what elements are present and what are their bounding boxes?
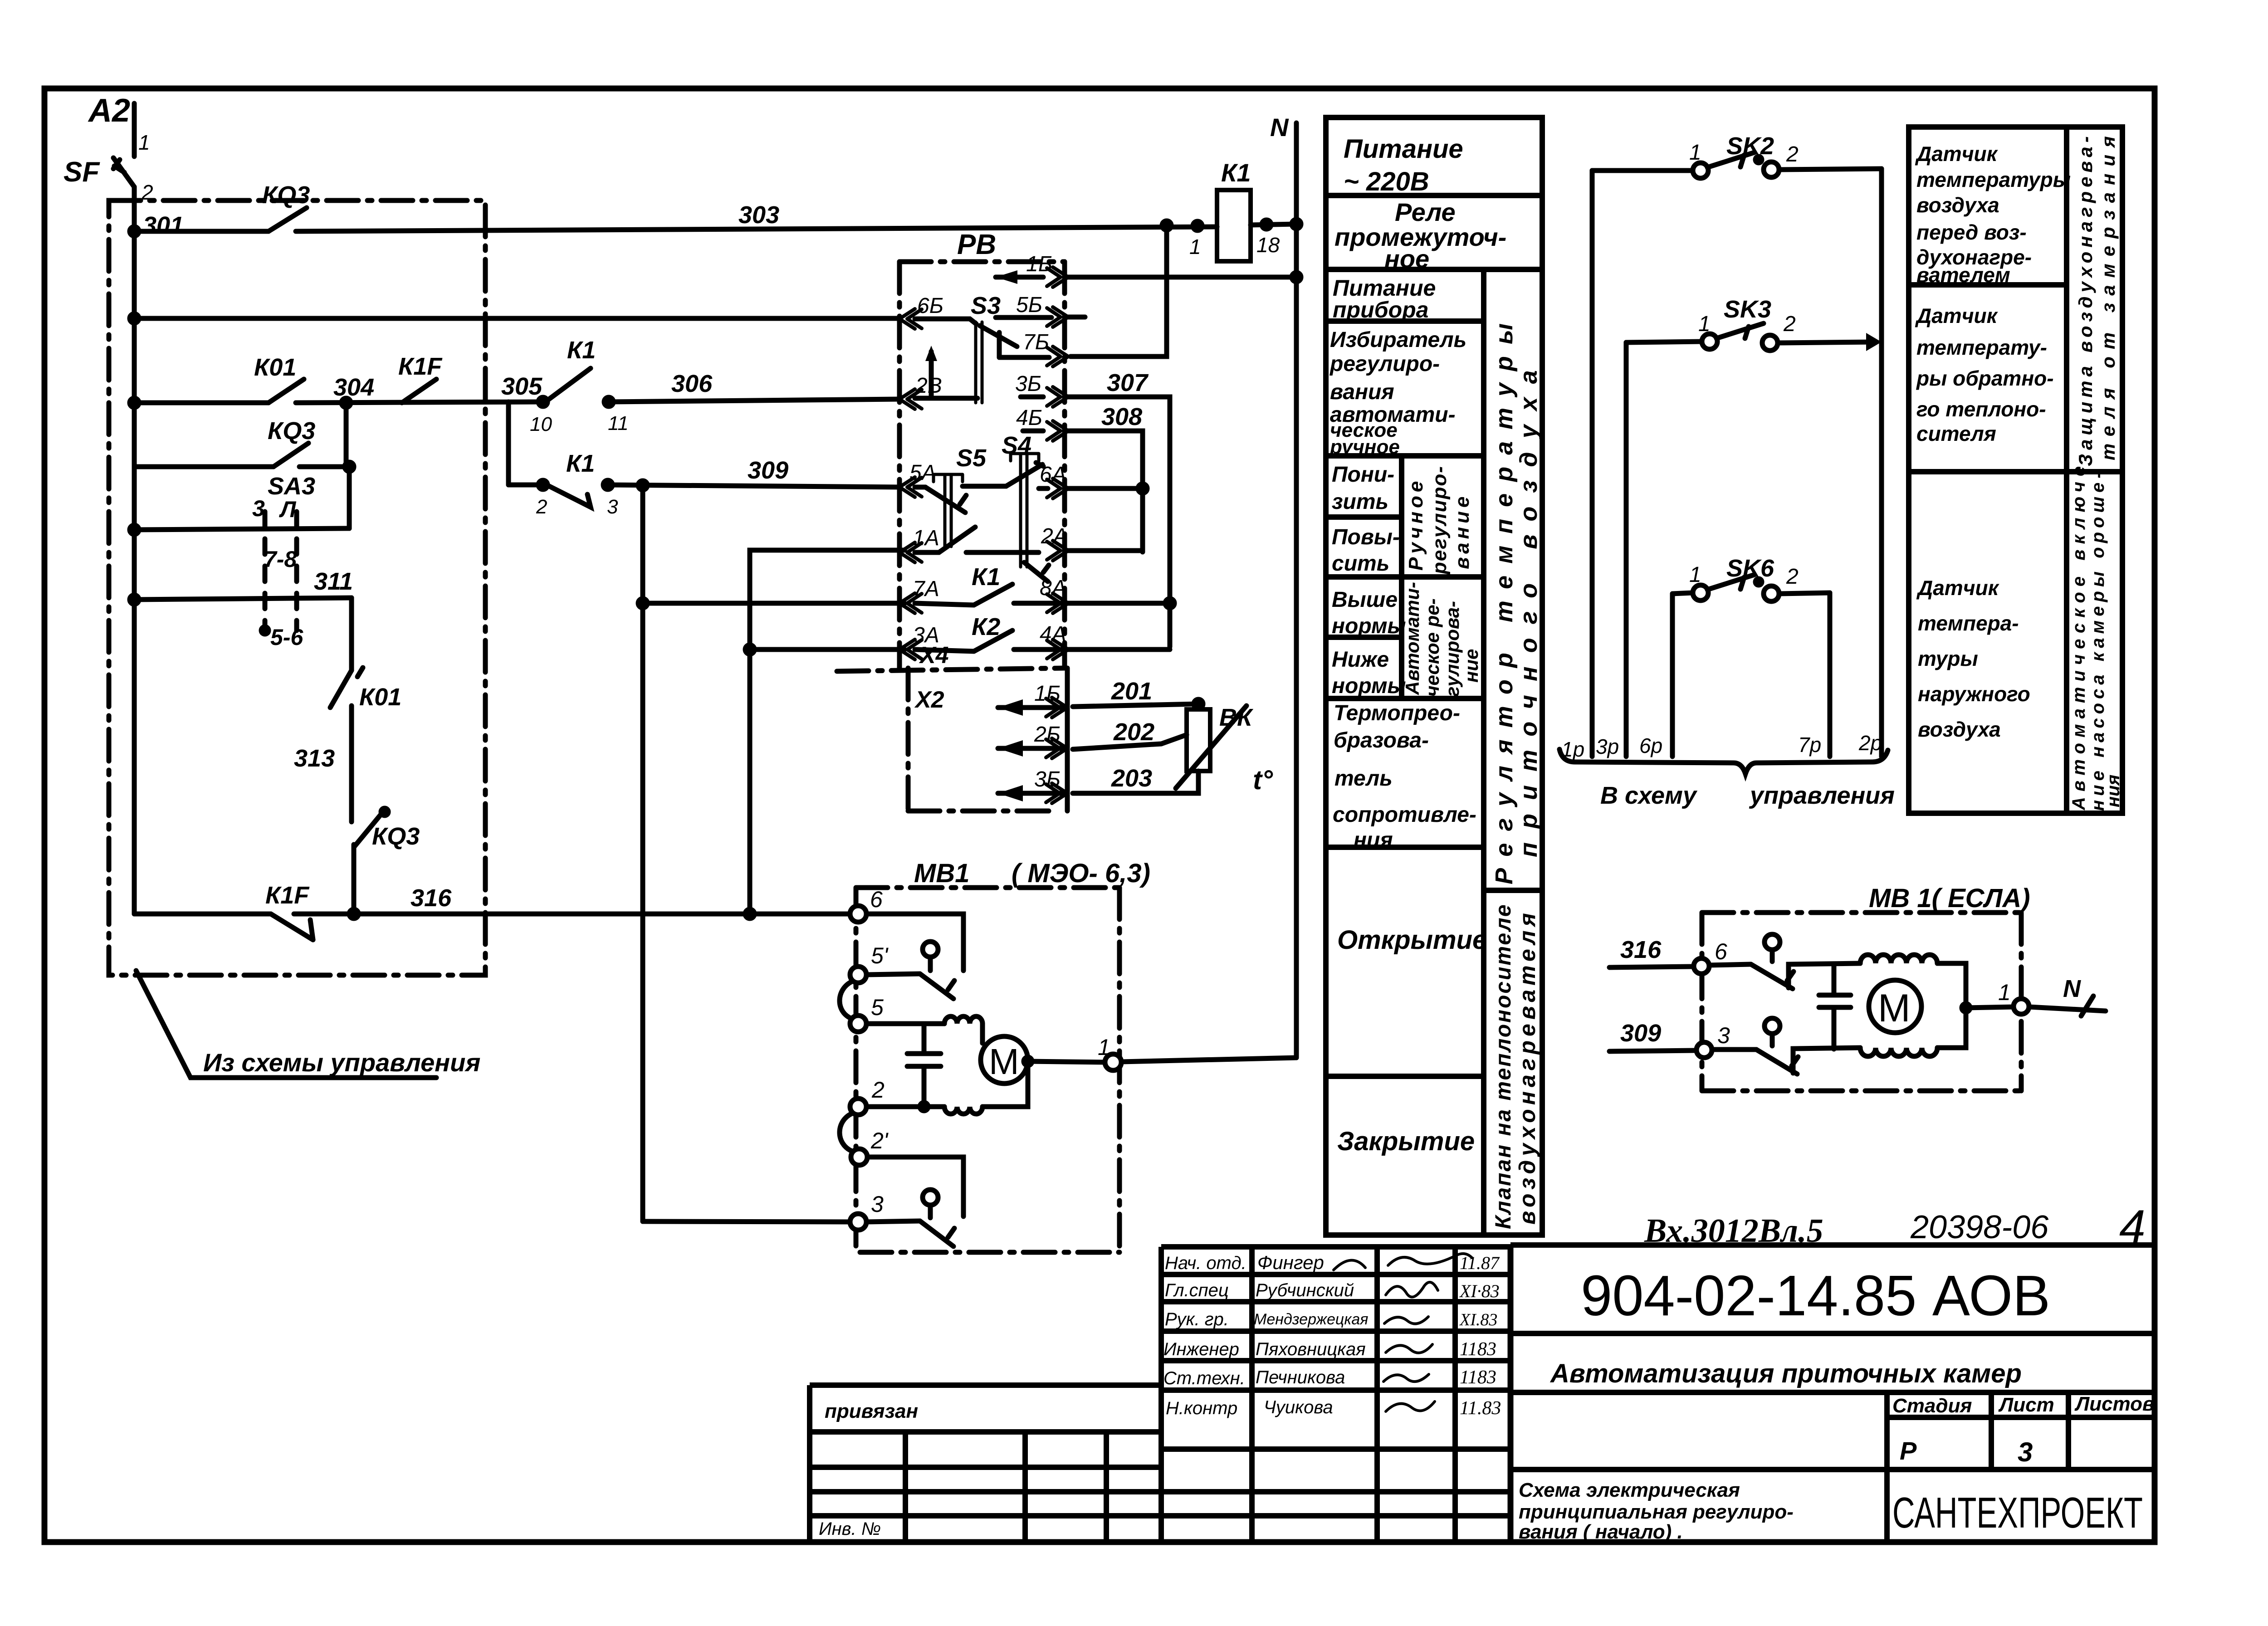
wire SK2 left (1592, 168, 1693, 173)
terminal 4A arrow (1047, 640, 1068, 659)
svg-text:А2: А2 (88, 93, 130, 129)
svg-text:Автоматизация приточных каме: Автоматизация приточных камер (1549, 1359, 2022, 1388)
svg-text:SА3: SА3 (268, 473, 315, 500)
contact K1 7A-8A (974, 584, 1012, 605)
svg-text:К1: К1 (972, 563, 1000, 591)
svg-text:N: N (2063, 975, 2081, 1002)
wire 311 (134, 598, 352, 600)
contact K01 (269, 379, 304, 403)
contact KQ3 (row 301/303) (269, 208, 307, 231)
svg-text:2А: 2А (1041, 524, 1068, 548)
svg-text:Листов: Листов (2074, 1393, 2155, 1415)
svg-text:~ 220В: ~ 220В (1344, 167, 1429, 196)
thermostat SK2 (1693, 163, 1708, 178)
motor M circle (981, 1036, 1028, 1084)
svg-text:К01: К01 (359, 684, 401, 711)
svg-text:2: 2 (871, 1077, 885, 1103)
svg-text:ВК: ВК (1219, 704, 1254, 731)
dash-dot enclosure left box (109, 200, 485, 975)
terminal 5B arrow (1047, 307, 1068, 327)
svg-text:сить: сить (1332, 552, 1389, 576)
wire 1B to N (1068, 275, 1296, 280)
svg-text:КQ3: КQ3 (262, 181, 310, 209)
svg-text:3р: 3р (1596, 735, 1619, 758)
thermostat SK3 (1702, 334, 1717, 349)
svg-text:Реле: Реле (1395, 198, 1456, 226)
svg-text:2: 2 (1786, 142, 1799, 166)
svg-text:6Б: 6Б (917, 294, 943, 318)
svg-text:ние: ние (1461, 649, 1482, 683)
terminal 6B arrow (899, 309, 922, 329)
circuit breaker SF (113, 158, 134, 187)
svg-text:2': 2' (870, 1128, 889, 1153)
terminal labels p (1561, 731, 1882, 761)
wire 201 (1073, 704, 1198, 707)
limit switch circle lower (ESLA) (1765, 1018, 1780, 1034)
leader Iz skhemy upravleniya (136, 971, 436, 1078)
PLACE_PB (643, 859, 1296, 1252)
winding upper (944, 1016, 982, 1024)
svg-text:МВ 1( ЕСЛА): МВ 1( ЕСЛА) (1869, 884, 2030, 913)
svg-text:309: 309 (1620, 1020, 1661, 1047)
terminal 2B(X2) (998, 746, 1067, 751)
label V skhemu upravleniya (1600, 782, 1895, 809)
svg-text:4Б: 4Б (1016, 406, 1042, 430)
svg-text:307: 307 (1107, 369, 1149, 396)
svg-text:регулиро-: регулиро- (1428, 465, 1451, 575)
svg-text:Вх.3012Вл.5: Вх.3012Вл.5 (1644, 1212, 1823, 1250)
svg-text:313: 313 (294, 745, 335, 772)
svg-text:теля от замерзания: теля от замерзания (2097, 129, 2119, 460)
svg-text:SF: SF (64, 156, 100, 188)
svg-text:Автоматическое включе-: Автоматическое включе- (2069, 449, 2089, 811)
svg-text:Ниже: Ниже (1332, 648, 1389, 672)
svg-text:1183: 1183 (1460, 1367, 1496, 1388)
svg-text:t°: t° (1253, 765, 1273, 795)
svg-text:Датчик: Датчик (1915, 142, 1999, 166)
wire 316 stub (1609, 967, 1693, 967)
wire 303 (296, 227, 1217, 231)
wire N stub (ESLA) (2029, 1007, 2106, 1011)
wire 6A row (1068, 486, 1143, 491)
wire 304 drop (344, 403, 349, 467)
svg-text:зить: зить (1332, 490, 1388, 514)
actuator arrow up (929, 352, 934, 398)
S4 lower blade (1024, 562, 1049, 581)
svg-text:1: 1 (138, 131, 150, 154)
svg-text:904-02-14.85 АОВ: 904-02-14.85 АОВ (1581, 1264, 2050, 1328)
terminal 5A arrow (899, 477, 922, 497)
wire 5 branch (866, 1021, 944, 1026)
svg-text:ручное: ручное (1330, 436, 1400, 458)
svg-text:Рубчинский: Рубчинский (1256, 1280, 1354, 1300)
wire drop 6p (1670, 594, 1675, 757)
wire 203 (1073, 771, 1198, 793)
capacitor (ESLA) (1819, 964, 1851, 1049)
terminal 5 (850, 1016, 866, 1032)
svg-text:ние насоса камеры ороше-: ние насоса камеры ороше- (2088, 468, 2108, 811)
wire row 6B (134, 316, 899, 321)
svg-text:вания: вания (1330, 380, 1394, 404)
connector X4/X2 (837, 668, 1066, 671)
svg-text:3Б: 3Б (1034, 767, 1061, 791)
terminal 6 (ESLA) (1694, 958, 1709, 974)
svg-text:Закрытие: Закрытие (1337, 1127, 1475, 1156)
terminal 7B arrow (1047, 347, 1068, 366)
svg-text:1: 1 (1698, 312, 1711, 336)
svg-text:ное: ное (1384, 244, 1429, 273)
terminal 3 (850, 1214, 866, 1230)
contact K1 10-11 (538, 397, 547, 406)
bottom-left table grid (810, 1382, 1161, 1388)
svg-text:308: 308 (1101, 403, 1142, 430)
wire row KQ3 (1029) (134, 464, 274, 469)
svg-text:11: 11 (608, 412, 629, 435)
svg-text:2: 2 (1783, 312, 1796, 336)
svg-text:Схема электрическая: Схема электрическая (1519, 1479, 1740, 1501)
svg-text:темпера-: темпера- (1918, 611, 2019, 635)
svg-text:тель: тель (1334, 767, 1393, 791)
svg-text:вание: вание (1451, 493, 1473, 569)
wire 7A bus drop (640, 485, 645, 1221)
terminal 8A arrow (1047, 593, 1068, 613)
svg-text:1183: 1183 (1460, 1339, 1496, 1360)
switch SA3 (268, 473, 315, 500)
svg-text:КQ3: КQ3 (268, 417, 315, 444)
wire 313 (349, 706, 354, 812)
svg-text:К01: К01 (254, 354, 296, 381)
svg-text:4А: 4А (1040, 622, 1066, 646)
svg-text:Печникова: Печникова (1256, 1367, 1345, 1387)
terminal 3 (ESLA) (1696, 1042, 1712, 1058)
svg-text:Автомати-: Автомати- (1402, 582, 1423, 695)
svg-text:Пяховницкая: Пяховницкая (1256, 1339, 1366, 1359)
svg-text:301: 301 (143, 212, 184, 239)
limit switch circle upper (ESLA) (1765, 934, 1780, 950)
svg-text:воздуха: воздуха (1916, 193, 1999, 217)
node A2 label (88, 93, 130, 129)
svg-text:Выше: Выше (1332, 588, 1398, 612)
terminal 3B(X2) (998, 791, 1067, 796)
svg-text:ры обратно-: ры обратно- (1916, 366, 2054, 390)
svg-text:Повы-: Повы- (1332, 525, 1400, 549)
wire 4A row (1068, 647, 1170, 652)
svg-text:316: 316 (1620, 936, 1662, 963)
device PB box (899, 259, 1065, 264)
wire to 316 (352, 845, 357, 914)
svg-text:ХI.83: ХI.83 (1459, 1310, 1497, 1329)
connector X2 box (906, 668, 911, 811)
terminal 2B arrow (899, 389, 922, 409)
contact K1 1A-2A (966, 550, 1039, 555)
wire SK6 left (1672, 593, 1693, 594)
title block main box (1510, 1242, 2155, 1248)
wire 8A row (1068, 601, 1170, 606)
node N (1270, 113, 1289, 142)
jumper 5'-5 (840, 981, 852, 1019)
svg-text:сителя: сителя (1916, 422, 1996, 445)
svg-text:Стадия: Стадия (1892, 1395, 1972, 1417)
svg-text:Х2: Х2 (914, 687, 944, 713)
terminal 4B arrow (1023, 429, 1043, 434)
svg-text:S5: S5 (956, 444, 987, 472)
svg-text:Ст.техн.: Ст.техн. (1163, 1368, 1245, 1388)
svg-text:5: 5 (871, 995, 884, 1020)
svg-text:САНТЕХПРОЕКТ: САНТЕХПРОЕКТ (1892, 1489, 2143, 1537)
svg-text:Датчик: Датчик (1916, 576, 2000, 600)
svg-text:1А: 1А (913, 526, 939, 550)
svg-text:3: 3 (1717, 1023, 1730, 1048)
svg-text:Инженер: Инженер (1163, 1339, 1239, 1359)
wire 6 branch (866, 914, 963, 971)
svg-text:SK6: SK6 (1726, 555, 1774, 582)
svg-text:20398-06: 20398-06 (1910, 1209, 2049, 1245)
signature squiggles (1388, 1254, 1472, 1265)
svg-text:температуры: температуры (1916, 168, 2071, 191)
svg-text:203: 203 (1111, 765, 1152, 792)
svg-text:3: 3 (2018, 1437, 2033, 1467)
svg-text:Мендзержецкая: Мендзержецкая (1254, 1311, 1368, 1328)
svg-text:прибора: прибора (1333, 297, 1428, 322)
svg-text:303: 303 (738, 201, 779, 229)
svg-text:2: 2 (536, 496, 547, 518)
svg-text:1: 1 (1689, 563, 1701, 587)
wire drop 7p (1828, 593, 1833, 757)
wire N bus (1294, 123, 1299, 1058)
svg-text:Инв. №: Инв. № (819, 1519, 881, 1539)
svg-text:Ручное: Ручное (1405, 478, 1427, 571)
svg-text:управления: управления (1749, 782, 1895, 809)
svg-text:Нач. отд.: Нач. отд. (1165, 1253, 1246, 1273)
wire 307 (1068, 397, 1170, 647)
svg-text:Из схемы управления: Из схемы управления (203, 1048, 480, 1077)
svg-text:принципиальная регулиро-: принципиальная регулиро- (1519, 1501, 1794, 1523)
svg-text:Рук. гр.: Рук. гр. (1165, 1309, 1229, 1329)
terminal 3B arrow (1021, 395, 1043, 400)
limit switch upper (923, 942, 938, 957)
contact K01 (chain) (330, 670, 352, 708)
svg-text:304: 304 (333, 374, 374, 401)
svg-text:РВ: РВ (957, 229, 996, 260)
brace (1559, 749, 1888, 774)
junction dots left bus (130, 227, 139, 236)
svg-text:К1F: К1F (398, 353, 443, 380)
winding lower (944, 1107, 982, 1114)
terminal 1 (1105, 1054, 1121, 1070)
svg-text:Защита воздухонагрева-: Защита воздухонагрева- (2075, 132, 2096, 466)
svg-text:ния: ния (1354, 828, 1393, 852)
wire 2' branch (867, 1157, 963, 1216)
contact upper (ESLA) (1709, 964, 1751, 965)
thermostat SK6 (1693, 585, 1708, 601)
svg-text:го теплоно-: го теплоно- (1916, 397, 2046, 421)
svg-text:( МЭО- 6,3): ( МЭО- 6,3) (1012, 859, 1150, 888)
svg-text:вателем: вателем (1916, 263, 2010, 287)
svg-text:сопротивле-: сопротивле- (1333, 803, 1476, 827)
svg-text:3: 3 (607, 496, 618, 518)
svg-text:Клапан на теплоносителе: Клапан на теплоносителе (1491, 903, 1515, 1229)
wire drop 2p (1879, 169, 1884, 757)
winding upper (ESLA) (1860, 955, 1937, 963)
wire row 304 (134, 400, 269, 405)
svg-text:6А: 6А (1040, 463, 1066, 487)
svg-text:3Б: 3Б (1015, 372, 1041, 396)
svg-text:5-6: 5-6 (270, 625, 303, 650)
relay coil K1 (1217, 190, 1251, 261)
wire 309 stub (1609, 1050, 1696, 1051)
svg-text:К1: К1 (567, 337, 596, 364)
wire 2 branch (866, 1104, 944, 1109)
contact K1 2-3 (508, 483, 543, 488)
node 304 (296, 402, 543, 403)
terminal 6 (850, 906, 866, 922)
svg-text:2В: 2В (915, 374, 942, 398)
svg-text:SK2: SK2 (1726, 132, 1774, 160)
svg-text:К2: К2 (972, 613, 1000, 640)
svg-text:1: 1 (1689, 141, 1701, 165)
svg-text:5Б: 5Б (1016, 293, 1042, 317)
svg-text:М: М (1878, 986, 1911, 1030)
svg-text:6: 6 (870, 887, 883, 912)
capacitor (907, 1024, 941, 1107)
wire SK3 right (1778, 342, 1875, 343)
terminal 5' (850, 967, 866, 983)
terminal 1 (ESLA) (2014, 999, 2029, 1014)
svg-text:Датчик: Датчик (1915, 304, 1999, 327)
svg-text:18: 18 (1256, 233, 1280, 257)
svg-text:Регулятор температуры: Регулятор температуры (1491, 312, 1518, 884)
svg-text:М: М (989, 1041, 1019, 1082)
svg-text:10: 10 (530, 413, 552, 435)
svg-text:1: 1 (1098, 1035, 1110, 1060)
signature table grid (1161, 1244, 1510, 1250)
PLACE_LEFT (837, 113, 1301, 1058)
svg-text:Гл.спец: Гл.спец (1165, 1280, 1229, 1300)
wire drop 1p (1590, 171, 1595, 757)
svg-text:7-8: 7-8 (264, 547, 297, 572)
terminal 1B(X2) (998, 705, 1067, 710)
table function column grid (1326, 117, 1542, 1235)
svg-text:5А: 5А (909, 461, 936, 485)
svg-text:305: 305 (501, 373, 543, 400)
wire 1A corner (750, 550, 904, 914)
svg-text:1Б: 1Б (1026, 252, 1052, 276)
terminal 1A arrow (899, 542, 922, 562)
svg-text:202: 202 (1113, 718, 1154, 746)
svg-text:1: 1 (1998, 980, 2011, 1005)
contact K1F (316) (271, 914, 313, 940)
contact K2 3A-4A (974, 630, 1012, 651)
PLACE_TABLE (1559, 132, 1895, 809)
svg-text:309: 309 (748, 457, 788, 484)
svg-text:вания ( начало) .: вания ( начало) . (1519, 1521, 1683, 1543)
wire 309 to terminal 3 (643, 1221, 850, 1222)
pin 2 label (141, 181, 153, 204)
wire drop to 309 (506, 402, 511, 485)
wire 7B riser (1070, 224, 1167, 356)
actuator MB1 (ESLA) box (1869, 884, 2030, 913)
PLACE_RIGHT (810, 1245, 2155, 1542)
terminal 1B arrow (996, 275, 1043, 280)
svg-text:Пони-: Пони- (1332, 463, 1394, 487)
svg-text:К1F: К1F (265, 882, 310, 909)
contact lower (ESLA) (1712, 1047, 1756, 1052)
svg-text:регулиро-: регулиро- (1329, 352, 1440, 376)
svg-text:К1: К1 (566, 450, 595, 477)
wire 311 drop (349, 598, 354, 670)
wire 7A row (643, 601, 904, 606)
wire 301 (143, 212, 184, 239)
svg-text:воздуха: воздуха (1918, 718, 2001, 741)
svg-text:воздухонагревателя: воздухонагревателя (1515, 909, 1540, 1225)
wire to terminal 1 (1028, 1061, 1105, 1062)
svg-text:7Б: 7Б (1023, 330, 1049, 354)
link S5-S4 (963, 484, 1006, 489)
switch S5 (956, 444, 987, 472)
svg-text:7А: 7А (913, 577, 939, 601)
contact KQ3 (chain row) (274, 443, 308, 467)
wire 309 (608, 485, 899, 487)
terminal 6A arrow (1047, 479, 1068, 498)
actuator MB1 (MEO-6,3) box (914, 859, 1150, 888)
terminal 7A arrow (899, 593, 922, 613)
svg-text:2р: 2р (1858, 731, 1882, 755)
wire 3A row (750, 647, 904, 652)
wire 202 (1073, 735, 1187, 749)
wire SK6 right (1779, 593, 1830, 594)
svg-text:гулирова-: гулирова- (1442, 601, 1463, 697)
switch S4 (1002, 432, 1031, 459)
svg-text:Избиратель: Избиратель (1330, 328, 1466, 352)
wire SK3 left (1626, 342, 1702, 342)
svg-text:ческое ре-: ческое ре- (1422, 598, 1443, 697)
wire drop 3p (1624, 342, 1629, 757)
svg-text:N: N (1270, 113, 1289, 142)
wire 308 (1068, 431, 1143, 552)
jumper 2-2' (840, 1113, 852, 1151)
svg-text:Фингер: Фингер (1257, 1252, 1324, 1273)
wire left bus (132, 187, 137, 914)
svg-text:6р: 6р (1639, 734, 1662, 757)
svg-text:6: 6 (1715, 939, 1727, 964)
switch S3 (971, 292, 1001, 319)
svg-text:Чуикова: Чуикова (1264, 1397, 1333, 1417)
winding lower (ESLA) (1860, 1048, 1937, 1056)
svg-text:нормы: нормы (1332, 614, 1406, 638)
svg-text:наружного: наружного (1918, 682, 2030, 706)
terminal 3A arrow (899, 640, 922, 659)
svg-text:К1: К1 (1221, 158, 1251, 187)
svg-text:8А: 8А (1040, 576, 1066, 600)
svg-text:Р: Р (1900, 1436, 1917, 1465)
svg-text:Открытие: Открытие (1337, 925, 1487, 955)
PLACE_MOTORS (1326, 117, 1542, 1235)
motor M circle (ESLA) (1869, 980, 1921, 1033)
svg-text:1: 1 (1189, 235, 1201, 259)
svg-text:перед воз-: перед воз- (1916, 220, 2027, 244)
svg-text:нормы: нормы (1332, 674, 1406, 698)
svg-text:МВ1: МВ1 (914, 859, 969, 888)
svg-text:Термопрео-: Термопрео- (1334, 701, 1460, 725)
svg-text:Лист: Лист (1998, 1394, 2054, 1416)
svg-text:5': 5' (871, 943, 889, 968)
svg-text:2: 2 (1786, 565, 1799, 589)
svg-text:температу-: температу- (1916, 336, 2047, 359)
svg-text:201: 201 (1111, 678, 1152, 705)
limit switch lower (923, 1190, 938, 1205)
wire to terminal 1 (ESLA) (1966, 1007, 2014, 1008)
svg-text:306: 306 (671, 370, 713, 397)
